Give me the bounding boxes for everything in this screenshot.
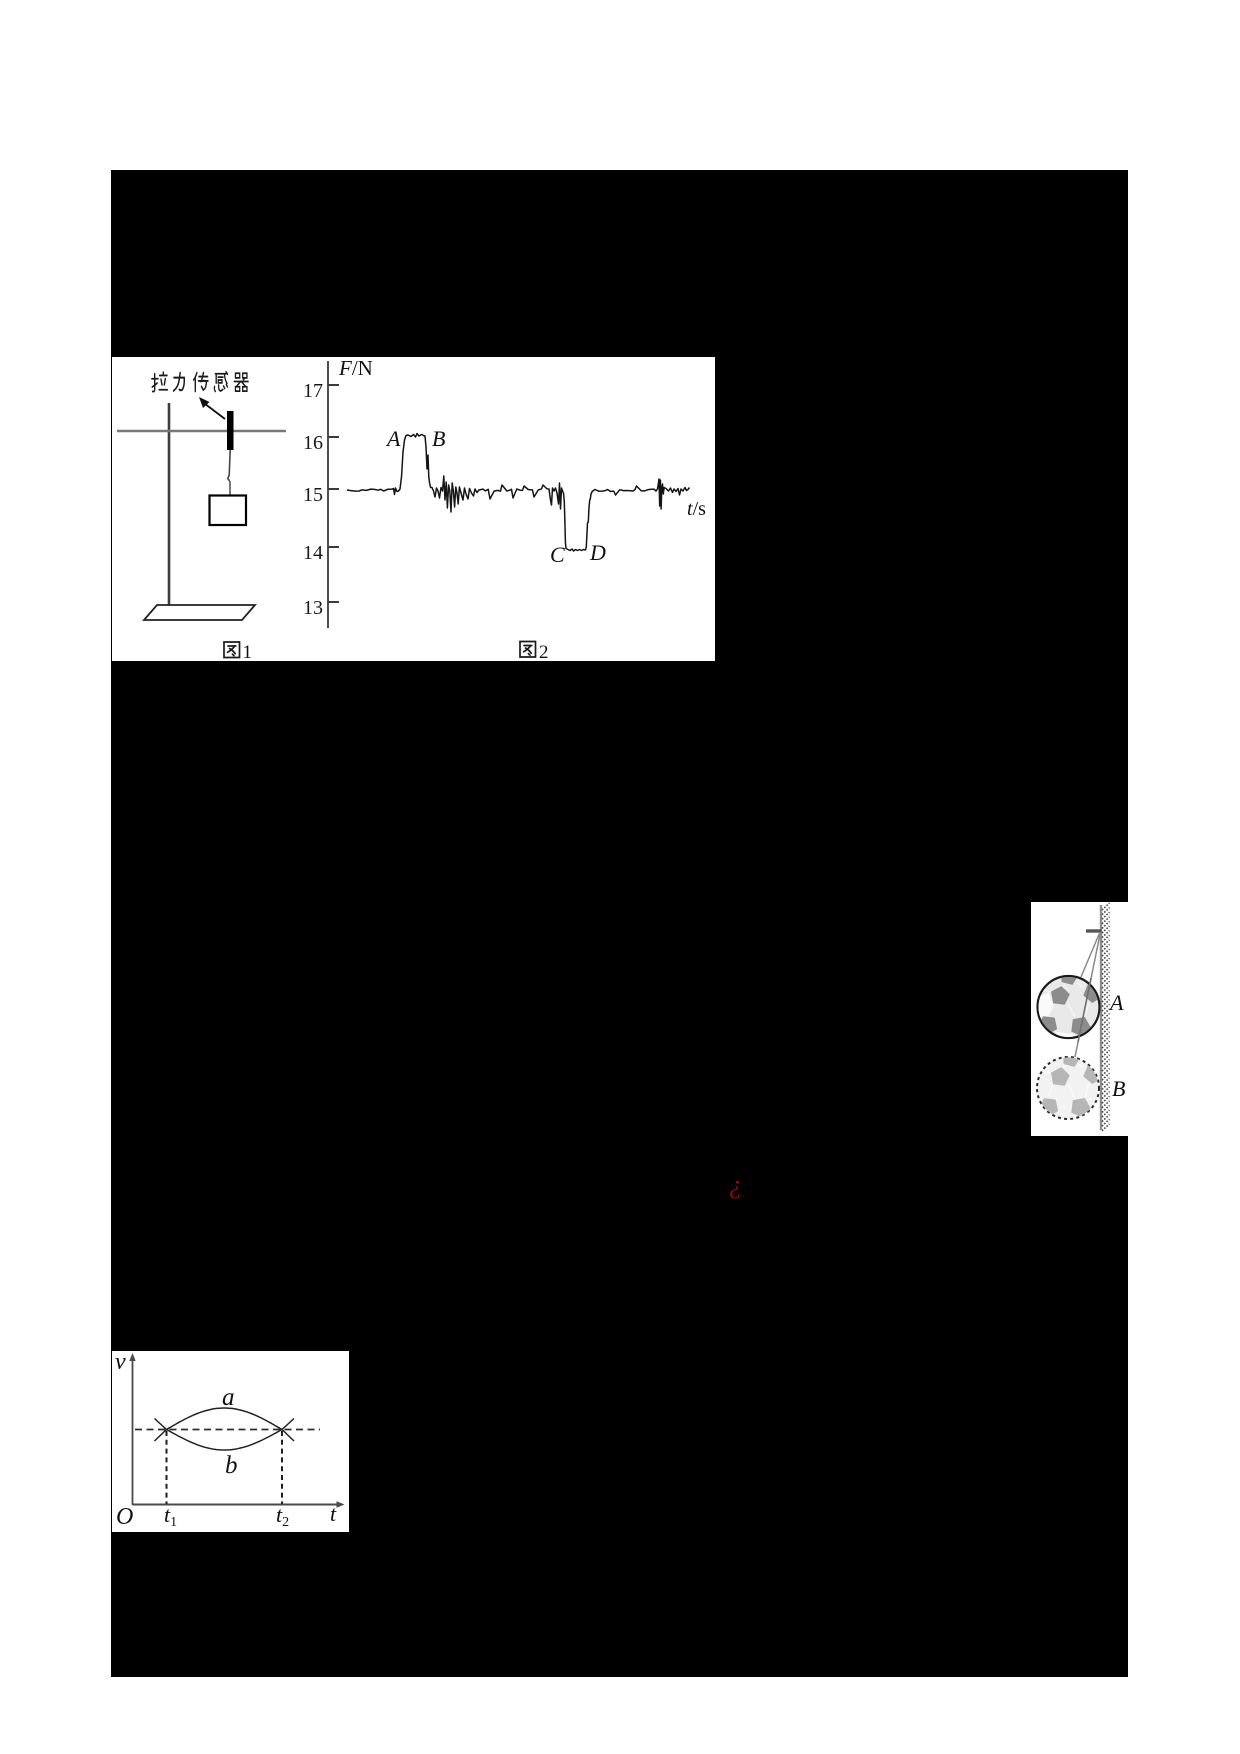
- ball B pattern: [1039, 1049, 1102, 1118]
- dashed t2 vertical: [281, 1431, 283, 1504]
- string to weight: [229, 481, 231, 496]
- svg-text:t/s: t/s: [687, 498, 706, 520]
- stand base: [144, 605, 255, 620]
- svg-text:1: 1: [243, 642, 253, 661]
- weight box: [210, 496, 247, 526]
- tick labels: [303, 380, 323, 619]
- curve b: [155, 1419, 295, 1451]
- peg on wall: [1086, 929, 1102, 932]
- svg-text:D: D: [589, 540, 606, 565]
- string to ball A: [1081, 932, 1100, 977]
- svg-text:O: O: [116, 1504, 133, 1530]
- F axis: [327, 361, 329, 628]
- stand pole: [168, 403, 171, 613]
- crossbar: [117, 430, 286, 433]
- red inverted question mark: [729, 1172, 742, 1198]
- SOCCER BALLS BOX: [1031, 902, 1128, 1136]
- dashed t1 vertical: [166, 1431, 168, 1504]
- svg-text:t: t: [330, 1501, 337, 1526]
- svg-text:2: 2: [539, 642, 549, 661]
- tick 14: [328, 546, 339, 548]
- svg-text:b: b: [225, 1452, 238, 1479]
- t axis: [133, 1504, 341, 1506]
- ball B dashed outline: [1037, 1057, 1099, 1119]
- tick 16: [328, 436, 339, 438]
- svg-text:B: B: [432, 426, 445, 451]
- svg-text:15: 15: [303, 484, 323, 506]
- sensor hook wire: [228, 450, 230, 481]
- svg-text:a: a: [222, 1384, 235, 1411]
- tick 13: [328, 601, 339, 603]
- string over ball A: [1078, 978, 1091, 1042]
- string through to ball B: [1075, 932, 1101, 1057]
- force sensor body: [227, 411, 234, 450]
- v axis: [132, 1358, 134, 1505]
- black background block: [111, 170, 1128, 1677]
- force-time curve: [347, 434, 690, 552]
- svg-text:t1: t1: [164, 1502, 177, 1530]
- svg-text:v: v: [115, 1351, 126, 1375]
- caption 图1: [224, 642, 252, 663]
- svg-text:C: C: [550, 542, 565, 567]
- svg-text:F/N: F/N: [338, 357, 373, 380]
- wall hatching: [1102, 903, 1110, 1131]
- FIGURE 1 + 2 BOX: [112, 357, 715, 661]
- curve a: [155, 1408, 295, 1441]
- ball A pattern: [1035, 967, 1102, 1046]
- ball A outline: [1038, 976, 1100, 1038]
- wall line: [1100, 905, 1102, 1130]
- V-T GRAPH BOX: [112, 1351, 349, 1532]
- svg-text:13: 13: [303, 597, 323, 619]
- tick 15: [328, 488, 339, 490]
- caption 图2: [520, 642, 549, 664]
- dashed speed line: [135, 1429, 320, 1431]
- svg-text:A: A: [1108, 990, 1124, 1015]
- tick 17: [328, 384, 339, 386]
- svg-text:A: A: [385, 426, 401, 451]
- svg-text:17: 17: [303, 380, 323, 402]
- svg-text:t2: t2: [276, 1502, 289, 1530]
- label 拉力传感器: [152, 372, 248, 392]
- svg-text:B: B: [1112, 1076, 1125, 1101]
- arrow to sensor: [199, 397, 225, 419]
- svg-text:16: 16: [303, 432, 323, 454]
- svg-text:14: 14: [303, 542, 323, 564]
